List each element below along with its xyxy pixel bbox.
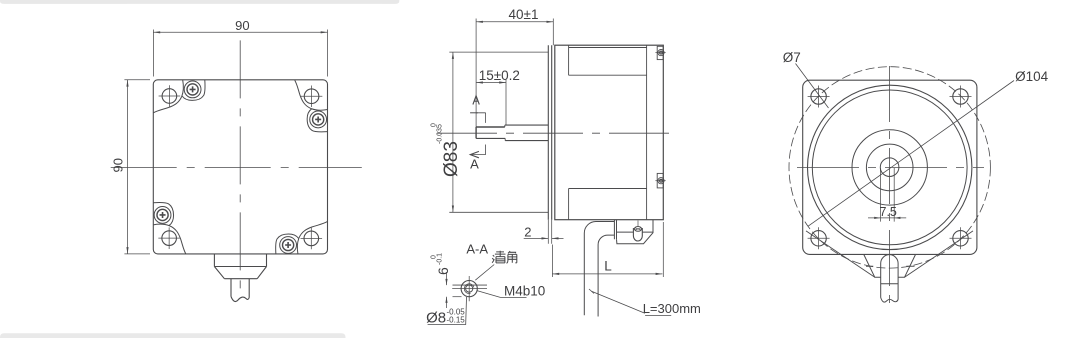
dim 7.5 extension lines bbox=[880, 168, 894, 222]
shaft section circle bbox=[461, 281, 477, 297]
centerline vertical left view bbox=[239, 40, 241, 289]
hole TL bbox=[808, 86, 830, 108]
leader L=300mm bbox=[592, 291, 672, 315]
flange square bbox=[803, 80, 977, 254]
dim 6 text rotated bbox=[431, 253, 452, 275]
svg-text:6: 6 bbox=[435, 267, 451, 275]
body circle outer bbox=[808, 85, 972, 249]
svg-text:-0.035: -0.035 bbox=[437, 124, 444, 144]
svg-text:M4b10: M4b10 bbox=[504, 284, 545, 299]
rear cover screw top bbox=[655, 46, 665, 59]
gray top bar bbox=[0, 0, 399, 4]
hole TR bbox=[950, 86, 972, 108]
svg-text:Ø7: Ø7 bbox=[783, 50, 801, 65]
dim 7.5 dimension line with outside arrows bbox=[868, 217, 906, 219]
mounting through-hole with crosshair bbox=[159, 85, 181, 107]
svg-text:A-A: A-A bbox=[466, 242, 488, 257]
svg-text:0: 0 bbox=[431, 123, 438, 127]
clamp screw bbox=[634, 227, 641, 232]
centerline horizontal left view bbox=[111, 167, 362, 169]
dim 90 left: extension lines bbox=[124, 80, 150, 254]
dim 15±0.2 right extension bbox=[505, 80, 507, 126]
motor body outline bbox=[555, 45, 664, 220]
shaft/view centerline bbox=[437, 132, 677, 134]
bottom tangent extension bbox=[453, 296, 462, 298]
dia104 leader diagonal bbox=[808, 81, 1014, 227]
svg-text:L=300mm: L=300mm bbox=[643, 301, 701, 316]
hole BL bbox=[808, 227, 830, 249]
svg-text:-0.15: -0.15 bbox=[447, 316, 466, 325]
shaft flat line bbox=[453, 284, 488, 286]
dim 90 top: extension lines bbox=[153, 30, 327, 77]
cable clamp U bbox=[633, 228, 642, 241]
section A-A cut mark top bbox=[470, 96, 486, 123]
cable elbow bbox=[584, 222, 614, 317]
cable dome and stub right view bbox=[881, 255, 898, 302]
flange plate extension for dim 2 bbox=[548, 220, 551, 244]
flange outline bbox=[153, 80, 327, 254]
assembly screw head bbox=[184, 81, 201, 98]
shaft circle bbox=[880, 158, 899, 177]
svg-text:A: A bbox=[470, 157, 479, 172]
svg-text:15±0.2: 15±0.2 bbox=[479, 68, 520, 83]
M4b10 leader bbox=[477, 291, 526, 298]
qingjiao leader bbox=[475, 265, 494, 281]
hole BR bbox=[950, 227, 972, 249]
section crosshair bbox=[452, 276, 487, 301]
corner detail BL bbox=[153, 202, 186, 254]
body circle inner bbox=[812, 90, 967, 245]
corner detail TL (pocket, boss, screw, hole) bbox=[153, 80, 205, 113]
svg-text:0: 0 bbox=[431, 255, 438, 259]
dia83 text rotated with tolerance bbox=[431, 123, 463, 177]
cable stub with break bbox=[231, 279, 249, 298]
svg-text:Ø83: Ø83 bbox=[441, 141, 462, 177]
centerline vertical right view bbox=[889, 66, 891, 307]
motor shaft bbox=[476, 125, 548, 141]
dim 6 arrows bbox=[446, 272, 448, 308]
gland trapezoid right view bbox=[864, 255, 916, 278]
svg-text:7.5: 7.5 bbox=[880, 205, 897, 219]
dim 90 left: dimension line bbox=[127, 80, 129, 254]
svg-text:40±1: 40±1 bbox=[509, 7, 539, 22]
gland side diagonals bbox=[806, 231, 973, 277]
dia7 leader bbox=[796, 64, 829, 109]
center boss circle bbox=[852, 130, 927, 205]
svg-text:90: 90 bbox=[111, 158, 126, 172]
M4 tapped hole circles bbox=[466, 285, 473, 292]
centerline horizontal right view bbox=[797, 166, 984, 168]
section A-A cut mark bottom bbox=[470, 145, 485, 158]
dia83 dimension line bbox=[452, 52, 454, 212]
dim 40±1 dimension line bbox=[476, 21, 553, 23]
dim 15±0.2 dimension line bbox=[476, 82, 506, 84]
qingjiao (Chinese) glyphs bbox=[492, 251, 517, 264]
corner detail BR bbox=[276, 222, 328, 255]
dim L extensions bbox=[552, 222, 663, 277]
corner detail TR bbox=[295, 80, 328, 132]
svg-text:Ø8: Ø8 bbox=[426, 310, 446, 327]
dim L dimension line bbox=[552, 273, 662, 275]
dim 40±1 extensions bbox=[476, 19, 553, 128]
gray bottom bar bbox=[0, 333, 346, 338]
dim 90 top: dimension line bbox=[153, 31, 327, 33]
cable gland box bbox=[614, 220, 653, 244]
body inner step lines bbox=[569, 45, 647, 220]
flange plate edge-on (double line) bbox=[548, 45, 551, 220]
dashed circle dia104 bbox=[789, 67, 990, 268]
rear cover screw bottom bbox=[655, 173, 665, 188]
svg-text:-0.1: -0.1 bbox=[437, 253, 444, 265]
middle circle bbox=[866, 144, 913, 191]
dia83 extension/edge lines bbox=[449, 52, 548, 212]
pocket contour and screw boss contour bbox=[153, 80, 205, 113]
cable cover below flange bbox=[214, 254, 266, 301]
svg-text:2: 2 bbox=[524, 225, 531, 240]
svg-text:90: 90 bbox=[235, 18, 249, 33]
svg-text:Ø104: Ø104 bbox=[1015, 69, 1049, 84]
dia8 leader bbox=[428, 297, 467, 325]
svg-text:L: L bbox=[604, 259, 612, 274]
